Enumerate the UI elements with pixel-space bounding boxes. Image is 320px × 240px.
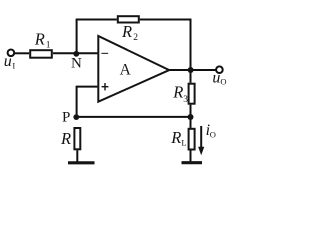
svg-text:R: R (60, 129, 71, 148)
svg-text:L: L (181, 138, 186, 148)
svg-text:R: R (34, 29, 45, 48)
svg-text:R: R (121, 22, 132, 41)
svg-text:u: u (4, 53, 12, 70)
svg-text:N: N (71, 56, 82, 72)
svg-text:R: R (172, 83, 183, 102)
svg-text:O: O (210, 130, 216, 140)
svg-text:P: P (62, 109, 70, 125)
svg-text:I: I (12, 60, 15, 70)
svg-text:u: u (212, 70, 220, 87)
svg-text:O: O (220, 77, 226, 87)
svg-text:A: A (120, 61, 132, 78)
svg-text:2: 2 (133, 33, 138, 43)
svg-text:1: 1 (46, 41, 51, 51)
svg-text:R: R (170, 128, 181, 147)
svg-text:3: 3 (183, 95, 188, 105)
